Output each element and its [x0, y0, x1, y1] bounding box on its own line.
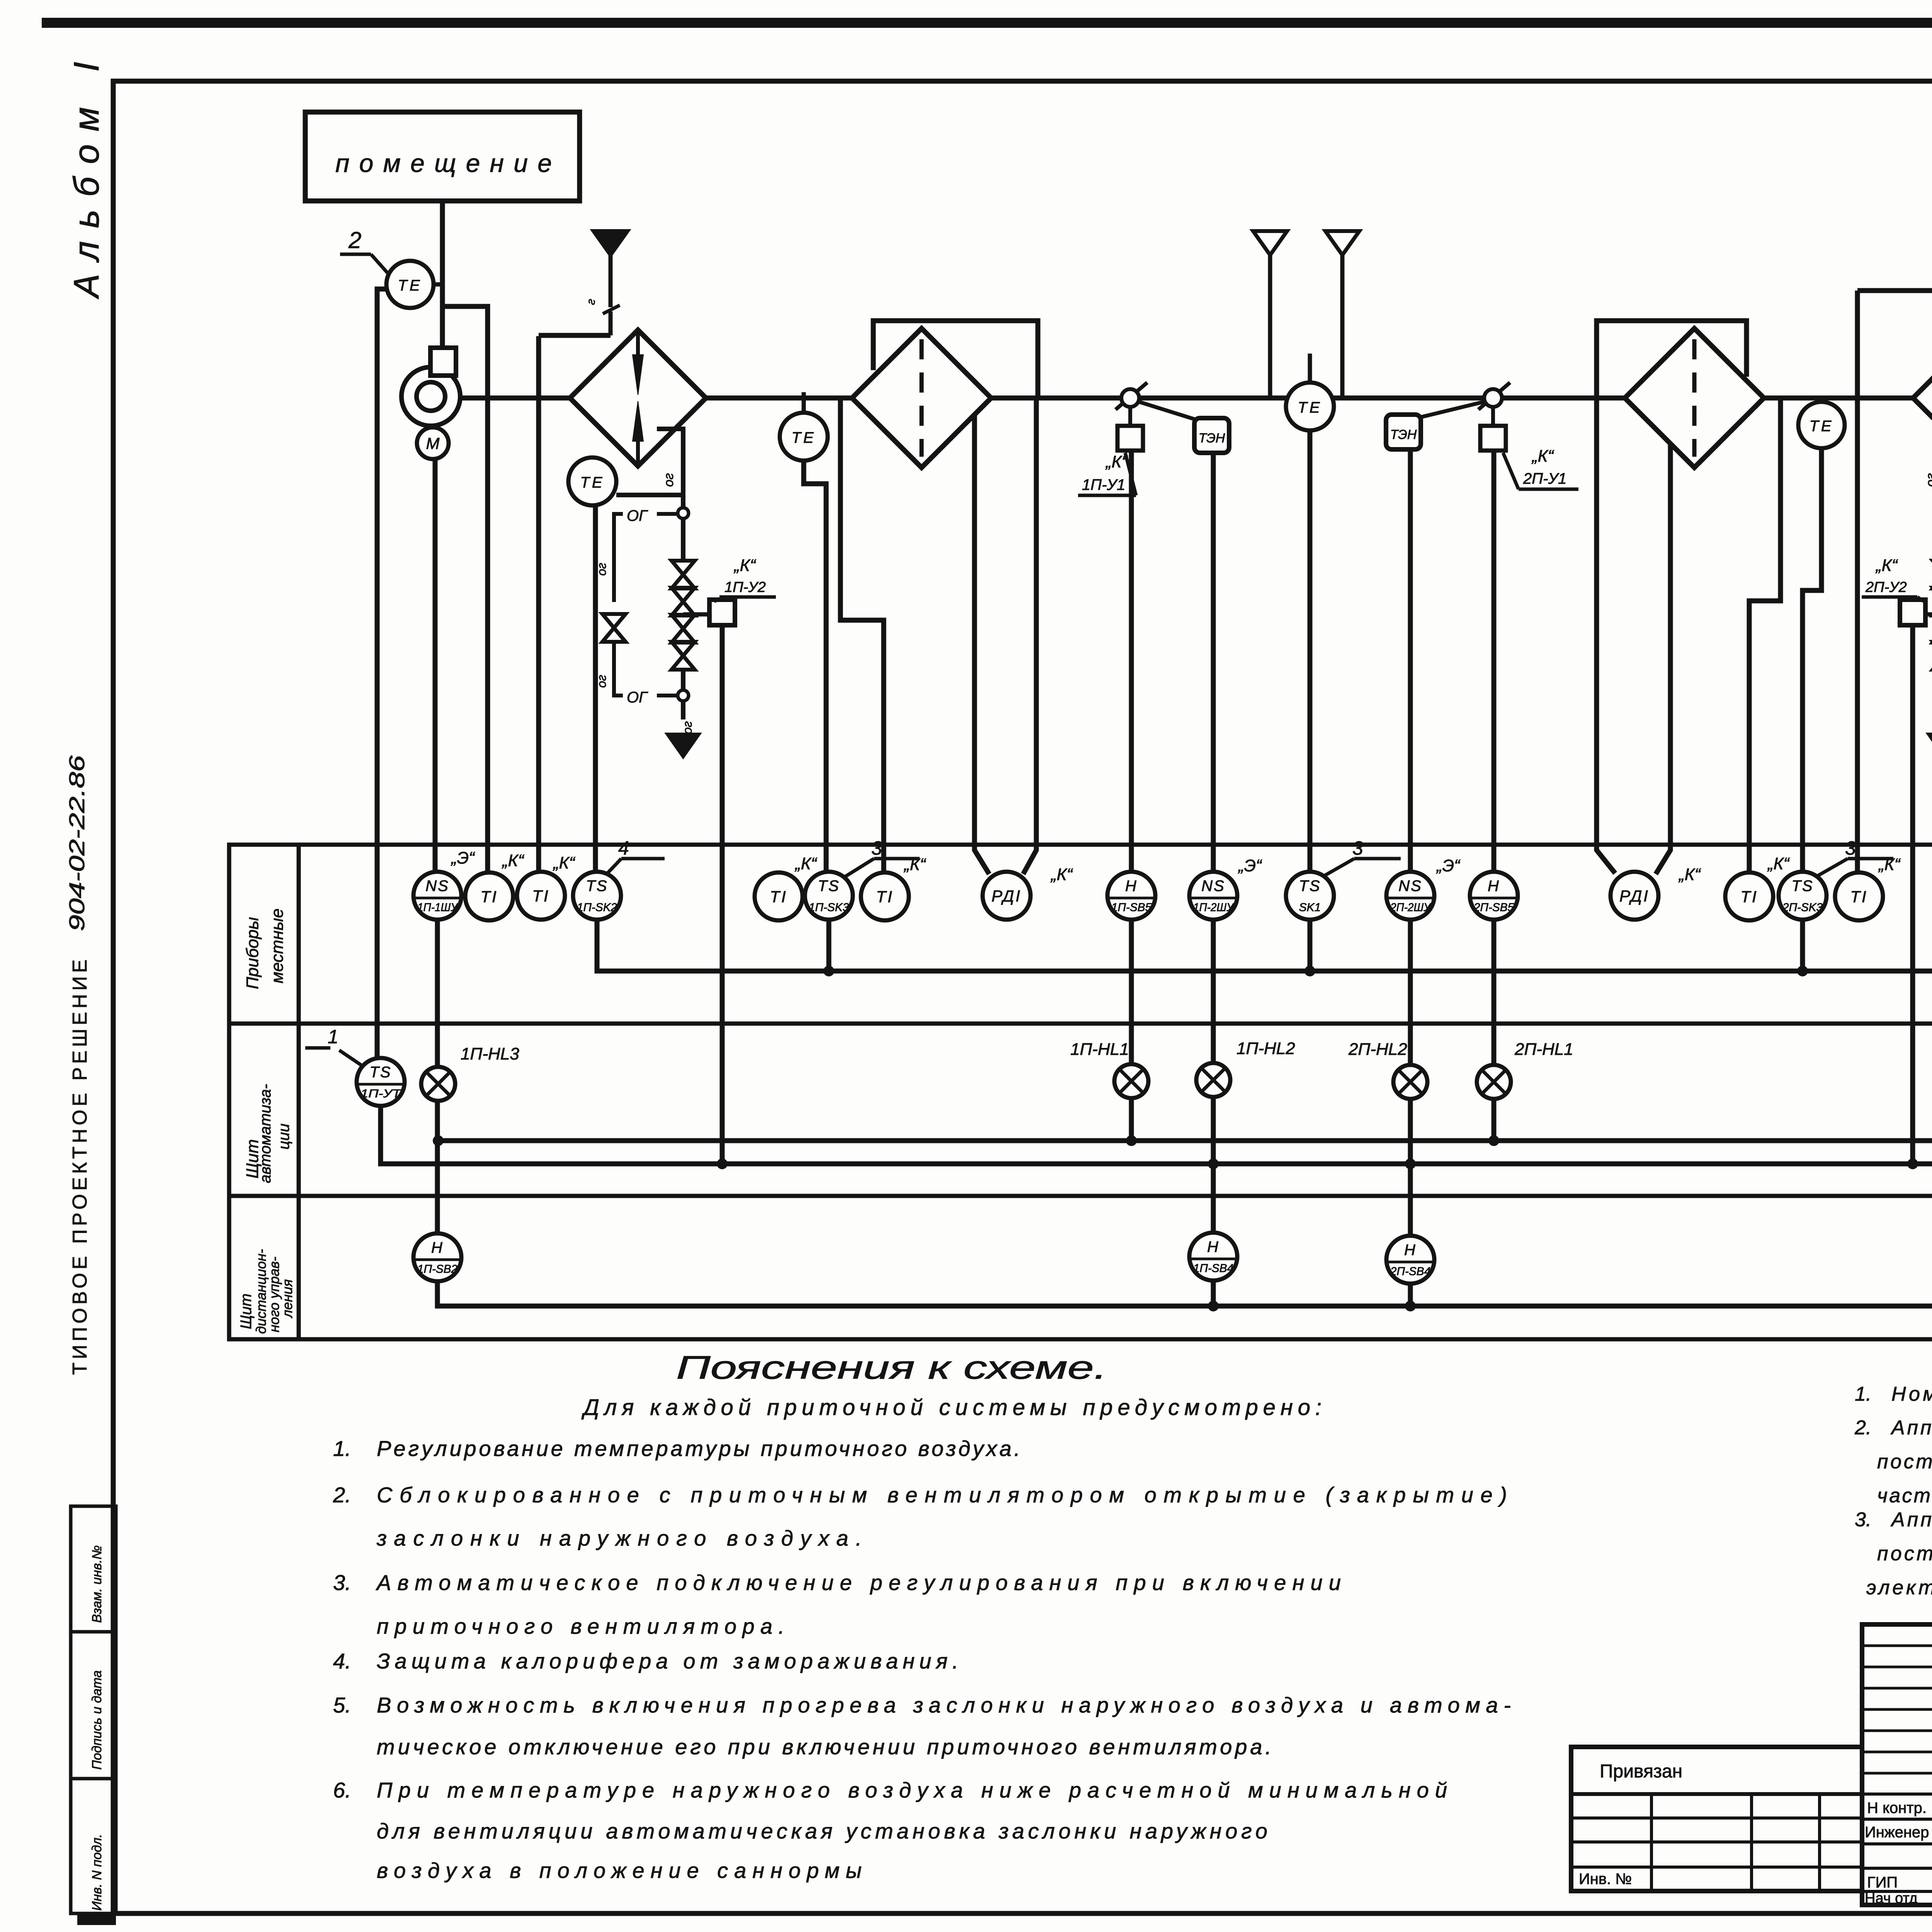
svg-text:3: 3 [1352, 837, 1363, 859]
svg-text:4.: 4. [333, 1649, 351, 1673]
wire supply tap to TI [442, 306, 488, 872]
svg-text:Н: Н [1207, 1238, 1219, 1255]
svg-text:2.: 2. [333, 1483, 351, 1507]
svg-text:Н: Н [1404, 1242, 1417, 1259]
svg-text:поставлена буква „Э“, заказыв: поставлена буква „Э“, заказывается по пр… [1877, 1543, 1932, 1565]
wire lamp 2П-HL1 to bus1 [1492, 1098, 1497, 1141]
svg-text:помещение: помещение [335, 149, 552, 177]
svg-text:ог: ог [680, 721, 694, 734]
svg-text:6.: 6. [333, 1778, 351, 1802]
svg-text:„К“: „К“ [1531, 447, 1554, 466]
panel bus 2 [381, 1106, 1932, 1164]
wire room1 to fan1 [440, 201, 445, 349]
scan artifact top bar [42, 18, 1932, 28]
svg-text:„К“: „К“ [1878, 855, 1901, 874]
filter 2 housing [1597, 321, 1747, 398]
svg-text:1П-SK3: 1П-SK3 [809, 901, 849, 914]
svg-text:1П-HL3: 1П-HL3 [461, 1044, 519, 1063]
svg-text:Аппаратура, у которой вмест: Аппаратура, у которой вместо номера по с… [1890, 1417, 1932, 1439]
wire bypass leg to TI [536, 336, 541, 872]
svg-text:Подпись и дата: Подпись и дата [90, 1670, 104, 1770]
svg-text:„К“: „К“ [1875, 556, 1898, 575]
svg-text:„К“: „К“ [553, 854, 576, 872]
svg-text:TS: TS [1299, 878, 1321, 895]
svg-text:Нач отд: Нач отд [1865, 1890, 1918, 1906]
instrument NS 1П-1ШУ [413, 872, 461, 920]
intake funnel system1 [594, 231, 628, 255]
wire TE room1 to TS 1П-УТ [377, 289, 387, 1058]
svg-text:ТИПОВОЕ ПРОЕКТНОЕ РЕШЕНИЕ: ТИПОВОЕ ПРОЕКТНОЕ РЕШЕНИЕ [69, 959, 91, 1375]
instrument NS 2П-2ШУ [1386, 872, 1434, 920]
wire NS 1П-2ШУ to lamp HL2 [1211, 920, 1216, 1064]
filter 1 housing [873, 321, 1038, 398]
svg-text:TE: TE [580, 474, 604, 491]
svg-text:ог: ог [1923, 473, 1932, 487]
instrument TS 1П-SK3 [805, 872, 853, 920]
instrument NS 1П-2ШУ [1189, 872, 1237, 920]
svg-text:2.: 2. [1854, 1417, 1871, 1439]
motor M1 [417, 427, 449, 459]
svg-text:Альбом I: Альбом I [67, 62, 106, 299]
wire TE water1 to pipe [616, 493, 683, 497]
drain2 [1927, 733, 1932, 758]
svg-text:NS: NS [425, 878, 449, 895]
svg-text:для вентиляции автоматичес: для вентиляции автоматическая установка … [377, 1819, 1267, 1843]
wire У2-2 to bus [1910, 625, 1915, 1163]
electric heater ТЭН 2 [1386, 415, 1421, 449]
svg-text:„К“: „К“ [903, 855, 927, 874]
svg-text:ТЭН: ТЭН [1199, 431, 1225, 446]
svg-text:Автоматическое подключение: Автоматическое подключение регулирования… [376, 1570, 1341, 1595]
svg-text:2П-2ШУ: 2П-2ШУ [1390, 901, 1432, 914]
wire filter1 pressure tap left [975, 414, 989, 874]
svg-text:„Э“: „Э“ [1238, 856, 1262, 875]
svg-text:M: M [426, 434, 440, 452]
wire У2-1 to bus [720, 625, 725, 1163]
sensor TE after heater1 [802, 392, 806, 413]
svg-text:воздуха в положение санно: воздуха в положение саннормы [377, 1858, 862, 1883]
wire lamp HL3 down to H 1П-SB2 [435, 1100, 440, 1233]
svg-text:3: 3 [1845, 837, 1856, 859]
svg-text:Инженер: Инженер [1865, 1824, 1929, 1841]
svg-text:NS: NS [1201, 878, 1225, 895]
svg-text:г: г [584, 298, 598, 306]
svg-text:2П-SK3: 2П-SK3 [1782, 901, 1823, 914]
svg-text:2П-HL1: 2П-HL1 [1514, 1040, 1573, 1059]
band box [229, 845, 1932, 1339]
heater calorifer 1 [570, 330, 706, 466]
svg-text:NS: NS [1398, 878, 1422, 895]
svg-text:2П-У2: 2П-У2 [1865, 579, 1907, 595]
wire TE before heater2 to TS 2П-SK3 [1803, 448, 1821, 872]
svg-text:Аппаратура, у которой вмес: Аппаратура, у которой вместо номера по с… [1890, 1509, 1932, 1531]
signal lamp 2П-HL2 [1393, 1065, 1427, 1099]
svg-text:ТЭН: ТЭН [1390, 427, 1417, 442]
wire H SB5-1 to lamp HL1 [1129, 920, 1134, 1065]
svg-text:„К“: „К“ [1678, 865, 1701, 884]
svg-text:1П-HL2: 1П-HL2 [1236, 1039, 1295, 1058]
svg-text:Н: Н [431, 1239, 444, 1256]
wire ТЭН1 to NS 1П-2ШУ [1211, 453, 1216, 872]
svg-text:TE: TE [1298, 399, 1322, 416]
wire duct tap to TI mid1 [840, 398, 884, 872]
svg-text:2П-HL2: 2П-HL2 [1348, 1040, 1407, 1059]
instrument TI a1 [465, 872, 513, 920]
remote bus 3 [437, 1281, 1932, 1306]
wire duct tap to TI mid2 [1749, 398, 1781, 872]
signal lamp 1П-HL2 [1196, 1063, 1230, 1097]
svg-text:РДI: РДI [992, 887, 1022, 905]
wire TE after heater1 to TS 1П-SK3 [804, 461, 826, 872]
wire TE water1 to TS 1П-SK2 [593, 505, 598, 872]
svg-text:поставлена буква„ К“, заказы: поставлена буква„ К“, заказывается по са… [1877, 1451, 1932, 1473]
svg-text:При температуре наружного в: При температуре наружного воздуха ниже р… [377, 1778, 1447, 1802]
wire TE outdoor to TS SK1 [1308, 430, 1313, 872]
pipe break mark г [603, 305, 620, 314]
filter 1 [852, 328, 991, 468]
svg-text:заслонки наружного воздуха: заслонки наружного воздуха. [376, 1526, 862, 1550]
wire M1 to NS 1П-1ШУ [433, 459, 438, 872]
instrument TI a2 [1725, 872, 1773, 920]
svg-text:TI: TI [1850, 888, 1867, 906]
instrument H 1П-SB2 [413, 1233, 461, 1281]
svg-text:местные: местные [268, 908, 287, 983]
svg-text:3.: 3. [1855, 1509, 1871, 1531]
instrument TI d1 [861, 872, 909, 920]
label ОГ top1 [657, 512, 677, 516]
electric heater ТЭН 1 [1194, 418, 1229, 453]
instrument TI b2 [1835, 872, 1883, 920]
svg-text:TI: TI [876, 888, 893, 906]
wire filter2 pressure tap left [1597, 398, 1615, 873]
svg-text:3.: 3. [333, 1570, 351, 1595]
svg-text:Сблокированное с приточным: Сблокированное с приточным вентилятором … [377, 1483, 1507, 1507]
wire lamp HL2 down to H 1П-SB4 [1211, 1096, 1216, 1233]
svg-text:904-02-22.86: 904-02-22.86 [65, 755, 89, 931]
svg-text:Взам. инв.№: Взам. инв.№ [90, 1545, 104, 1623]
wire bypass leg2 to TI [1855, 291, 1860, 872]
svg-text:1П-SK2: 1П-SK2 [577, 901, 617, 914]
svg-text:1П-SB5: 1П-SB5 [1111, 901, 1151, 914]
svg-text:Для каждой приточной систе: Для каждой приточной системы предусмотре… [581, 1395, 1321, 1420]
svg-text:ления: ления [279, 1279, 295, 1318]
svg-text:РДI: РДI [1619, 887, 1650, 905]
svg-text:1.: 1. [1855, 1383, 1871, 1405]
svg-text:TI: TI [532, 887, 549, 905]
air damper 1П-У1 [1116, 383, 1147, 410]
svg-text:4: 4 [618, 837, 629, 859]
svg-text:Н: Н [1125, 878, 1138, 895]
svg-text:2П-SB4: 2П-SB4 [1390, 1265, 1430, 1278]
svg-text:Пояснения к схеме.: Пояснения к схеме. [676, 1349, 1107, 1386]
pipe union top1 [678, 508, 689, 519]
svg-text:1: 1 [328, 1026, 338, 1048]
svg-text:ОГ: ОГ [627, 689, 648, 706]
svg-text:TI: TI [480, 888, 498, 906]
main duct line system 1-2 [446, 396, 570, 401]
svg-text:1П-1ШУ: 1П-1ШУ [417, 901, 459, 914]
signal lamp 2П-HL1 [1477, 1065, 1511, 1099]
svg-text:TE: TE [1809, 418, 1833, 435]
svg-text:Защита калорифера от зам: Защита калорифера от замораживания. [377, 1649, 958, 1673]
svg-text:TS: TS [369, 1064, 391, 1081]
wire ТЭН2 to NS 2П-2ШУ [1408, 449, 1413, 872]
svg-text:Щит: Щит [238, 1294, 255, 1329]
svg-text:1П-УТ: 1П-УТ [361, 1087, 402, 1100]
svg-text:части проекта: части проекта [1877, 1485, 1932, 1507]
svg-text:Приборы: Приборы [243, 917, 262, 989]
svg-text:Привязан: Привязан [1600, 1761, 1682, 1782]
svg-text:TS: TS [818, 878, 840, 895]
margin stamp boxes [71, 1506, 116, 1913]
svg-text:5.: 5. [333, 1693, 351, 1717]
wire NS 2П-2ШУ to lamp 2П-HL2 [1408, 920, 1413, 1066]
wire filter2 pressure tap right [1656, 444, 1670, 874]
room box 1 помещение [305, 112, 580, 201]
instrument TS SK1 [1286, 872, 1334, 920]
svg-text:TS: TS [586, 878, 608, 895]
instrument TS 2П-SK3 [1779, 872, 1827, 920]
freeze protection bus TS chain [597, 920, 1932, 971]
sensor TE before heater2 [1820, 398, 1824, 402]
band row separator 2 [229, 1194, 1932, 1198]
svg-text:Номера позиций у приборов: Номера позиций у приборов проставлены со… [1891, 1383, 1932, 1405]
svg-text:„К“: „К“ [1050, 865, 1073, 884]
svg-text:ОГ: ОГ [627, 507, 648, 524]
instrument H 2П-SB5 [1470, 872, 1518, 920]
wire H SB5-2 to lamp 2П-HL1 [1492, 920, 1497, 1066]
svg-text:ог: ог [662, 473, 676, 487]
svg-text:3: 3 [871, 837, 882, 859]
svg-text:2П-У1: 2П-У1 [1523, 470, 1566, 487]
svg-text:„Э“: „Э“ [1436, 856, 1461, 875]
wire NS1 to lamp HL3 [435, 920, 440, 1068]
fan 1П [401, 367, 460, 426]
wire lamp HL1 to bus1 [1129, 1097, 1134, 1141]
wire damper1 to H 1П-SB5 [1129, 451, 1134, 872]
wire lamp 2П-HL2 down to H 2П-SB4 [1408, 1098, 1413, 1236]
svg-text:2П-SB5: 2П-SB5 [1473, 901, 1514, 914]
band row separator 1 [229, 1022, 1932, 1026]
svg-text:2: 2 [348, 227, 361, 253]
bypass duct over heater1 [539, 333, 611, 338]
svg-text:TI: TI [770, 888, 787, 906]
svg-text:TI: TI [1740, 888, 1758, 906]
instrument РДI 1 [983, 872, 1031, 920]
heater1 return pipe [657, 429, 683, 508]
svg-text:ог: ог [595, 675, 609, 688]
bypass duct over heater2 [1857, 288, 1932, 293]
instrument TI c1 [755, 872, 803, 920]
outdoor funnel right [1325, 231, 1359, 255]
pipe union bottom1 [678, 690, 689, 701]
heater calorifer 2 [1913, 330, 1932, 466]
filter 2 [1625, 328, 1764, 468]
svg-text:Возможность включения прогре: Возможность включения прогрева заслонки … [377, 1693, 1511, 1717]
sensor TE outdoor [1308, 354, 1312, 383]
svg-text:TS: TS [1791, 878, 1813, 895]
svg-text:SK1: SK1 [1299, 901, 1321, 914]
svg-text:Инв. №: Инв. № [1579, 1871, 1632, 1888]
band label column divider [297, 845, 301, 1339]
svg-text:TE: TE [398, 277, 422, 294]
air damper 2П-У1 [1478, 383, 1510, 410]
svg-text:Инв. N подл.: Инв. N подл. [90, 1834, 104, 1911]
valve actuator К 2П-У2 [1925, 612, 1932, 617]
wire damper2 to H 2П-SB5 [1492, 451, 1497, 872]
title block attach table [1571, 1747, 1862, 1891]
svg-text:„К“: „К“ [733, 556, 757, 575]
svg-text:Н контр.: Н контр. [1867, 1799, 1927, 1816]
signal lamp 1П-HL3 [421, 1067, 455, 1101]
svg-text:„К“: „К“ [1767, 854, 1790, 873]
panel bus 1 [438, 1138, 1932, 1143]
svg-text:1П-У1: 1П-У1 [1082, 476, 1125, 493]
scan artifact bottom-left blob [77, 1912, 116, 1925]
signal lamp 1П-HL1 [1114, 1064, 1148, 1098]
sensor TE room1 [386, 261, 434, 308]
instrument TS 1П-УТ [357, 1058, 405, 1106]
svg-text:ции: ции [276, 1124, 293, 1150]
bypass valve 1 [602, 614, 626, 628]
svg-text:1.: 1. [333, 1436, 351, 1461]
svg-text:TE: TE [791, 429, 816, 446]
svg-text:1П-У2: 1П-У2 [724, 579, 766, 595]
control valve chain 1 [681, 518, 685, 561]
svg-text:„Э“: „Э“ [451, 849, 475, 867]
instrument TI b1 [517, 872, 565, 920]
svg-text:приточного вентилятора.: приточного вентилятора. [377, 1614, 784, 1638]
sensor TE water1 [568, 457, 616, 505]
svg-text:„К“: „К“ [502, 851, 525, 870]
instrument РДI 2 [1611, 872, 1658, 920]
svg-text:„К“: „К“ [794, 854, 818, 873]
svg-text:тическое отключение его при: тическое отключение его при включении пр… [377, 1735, 1271, 1759]
outdoor funnel left [1253, 231, 1287, 255]
bypass bottom elbow1 [614, 642, 623, 696]
instrument H 2П-SB4 [1386, 1236, 1434, 1284]
svg-text:ог: ог [595, 563, 609, 576]
svg-text:1П-SB4: 1П-SB4 [1193, 1262, 1233, 1275]
svg-text:1П-2ШУ: 1П-2ШУ [1193, 901, 1235, 914]
valve actuator К 1П-У2 [683, 612, 709, 617]
svg-text:Н: Н [1488, 878, 1500, 895]
instrument TS 1П-SK2 [573, 872, 621, 920]
svg-text:автоматиза-: автоматиза- [257, 1084, 274, 1183]
svg-text:электрооборудования.: электрооборудования. [1866, 1577, 1932, 1599]
instrument H 1П-SB5 [1107, 872, 1155, 920]
svg-text:Регулирование температуры: Регулирование температуры приточного воз… [377, 1436, 1020, 1461]
title block staff table [1862, 1624, 1932, 1905]
instrument H 1П-SB4 [1189, 1233, 1237, 1281]
svg-text:1П-HL1: 1П-HL1 [1070, 1040, 1129, 1059]
drain1 [666, 733, 701, 758]
svg-text:1П-SB2: 1П-SB2 [417, 1263, 457, 1276]
svg-text:ГИП: ГИП [1867, 1874, 1898, 1891]
wire filter1 pressure tap right [1023, 398, 1036, 874]
